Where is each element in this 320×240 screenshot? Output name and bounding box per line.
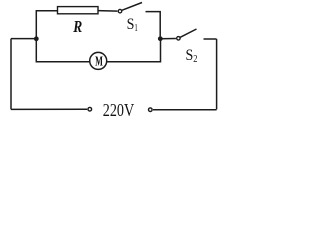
wire: resistor to switch S1	[98, 10, 117, 13]
svg-text:1: 1	[134, 22, 137, 34]
node A junction dot	[34, 36, 39, 41]
node B junction dot	[158, 36, 163, 41]
wire: right rail	[216, 39, 218, 109]
wire: motor branch right	[107, 39, 161, 62]
svg-text:S: S	[186, 47, 194, 64]
wire: terminal to bottom right	[153, 109, 217, 111]
terminal: supply left	[88, 107, 92, 111]
label S1	[127, 16, 138, 34]
switch S1	[118, 3, 160, 37]
svg-text:M: M	[95, 54, 103, 69]
motor M	[90, 52, 107, 69]
svg-text:2: 2	[193, 53, 197, 65]
terminal: supply right	[149, 108, 153, 112]
wire: motor branch left	[36, 39, 89, 62]
wire: bottom left to terminal	[11, 108, 87, 110]
wire: node A up to top branch	[36, 11, 57, 39]
wire: left rail	[10, 39, 12, 110]
svg-text:S: S	[127, 16, 135, 33]
wire: node A to left rail	[11, 38, 36, 40]
resistor R	[58, 7, 99, 14]
switch S2	[177, 29, 217, 40]
label S2	[186, 47, 198, 65]
svg-text:R: R	[72, 17, 82, 36]
wire: node B to switch S2	[160, 38, 176, 40]
svg-text:220V: 220V	[103, 100, 134, 120]
